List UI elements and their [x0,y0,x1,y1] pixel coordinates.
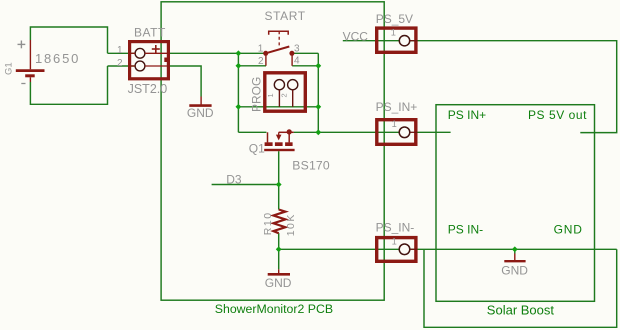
connector BATT [130,42,170,79]
svg-text:PS IN-: PS IN- [448,223,483,237]
transistor Q1 [268,132,294,142]
svg-text:ShowerMonitor2 PCB: ShowerMonitor2 PCB [215,302,333,316]
wire solar gnd stub [514,249,516,253]
ground symbol below BATT [189,97,211,106]
svg-text:GND: GND [554,223,583,237]
svg-text:GND: GND [265,276,292,290]
wire left bus vertical [237,53,239,132]
svg-text:JST2.0: JST2.0 [128,82,168,96]
wire net D3 [212,184,279,186]
svg-text:PS IN+: PS IN+ [448,108,486,122]
frame ShowerMonitor2 PCB [161,2,384,316]
svg-text:Q1: Q1 [249,142,265,156]
wire PS_IN- row right [410,248,617,250]
wire switch pin3 right [292,52,318,54]
wire PROG row [238,106,318,108]
svg-text:3: 3 [294,43,300,54]
svg-text:1: 1 [392,119,397,129]
wire to PS_IN+ [318,131,399,133]
switch START [266,31,292,66]
svg-text:1: 1 [391,28,396,38]
wire Q1 gate down [278,151,280,209]
wire BATT pin1 to switch [170,52,266,54]
svg-text:START: START [265,9,306,23]
header PS_5V [377,28,418,52]
svg-text:2: 2 [279,93,288,97]
wire to Q1 drain [238,131,266,133]
wire PS_5V to solar boost output [410,41,617,133]
wire battery minus loop [30,66,107,104]
wire net VCC [343,40,400,42]
junction solar gnd [512,246,518,252]
svg-text:R10: R10 [262,211,274,235]
transistor Q1 gate bar [264,149,294,151]
battery plus mark [18,41,26,49]
svg-text:PS_IN+: PS_IN+ [376,100,418,114]
wire gnd row to PS_IN- [279,248,400,250]
frame Solar Boost [436,105,595,318]
wire BATT pin1 left [108,52,136,54]
wire R10 to gnd row [278,233,280,249]
wire down to gnd symbol [278,249,280,269]
svg-text:PS 5V out: PS 5V out [528,108,587,122]
svg-text:4: 4 [294,56,300,67]
header PS_IN+ [377,120,418,145]
battery G1 [16,40,45,82]
transistor Q1 channel pads [265,142,293,146]
svg-text:BATT: BATT [134,26,166,40]
transistor Q1 body arrow [276,135,282,141]
wire switch lower row right [292,65,318,67]
wire BATT pin2 left [108,65,136,67]
ground symbol below R10 [268,269,290,274]
header PS_IN- [377,238,418,262]
wire switch lower row left [238,65,266,67]
switch contact dots [263,51,268,56]
svg-text:18650: 18650 [35,51,80,66]
svg-text:PROG: PROG [250,77,264,112]
svg-text:PS_5V: PS_5V [376,12,413,26]
svg-text:1: 1 [117,45,123,56]
svg-text:Solar Boost: Solar Boost [487,303,555,318]
svg-text:2: 2 [117,58,123,69]
svg-text:1: 1 [258,43,264,54]
svg-text:PS_IN-: PS_IN- [376,221,415,235]
junction right bus PROG row [315,104,321,110]
ground symbol solar boost [504,254,525,262]
wire BATT pin2 to ground [170,66,201,97]
junction battery plus at switch row [236,50,242,56]
svg-text:D3: D3 [226,172,242,186]
svg-text:GND: GND [187,106,214,120]
wire Q1 source right [294,131,319,133]
battery minus mark [21,83,25,85]
svg-text:1: 1 [392,237,397,247]
resistor R10 [273,210,285,234]
wire battery plus loop [30,27,107,53]
svg-text:1: 1 [266,93,275,97]
wire ground loop [424,249,617,327]
junction R10 gnd row [276,246,282,252]
wire PS_IN+ into solar boost [417,131,450,133]
svg-text:VCC: VCC [343,29,369,43]
svg-text:10K: 10K [285,213,297,236]
junction left bus PROG row [236,104,242,110]
junction right bus source row [315,129,321,135]
junction node D3 [276,182,282,188]
connector PROG [265,73,306,111]
junction left bus row2 [236,63,242,69]
transistor Q1 bulk dot [287,129,292,134]
svg-text:G1: G1 [3,62,14,75]
svg-text:GND: GND [501,264,528,278]
junction right bus row2 [315,63,321,69]
wire right bus vertical [317,53,319,132]
svg-text:BS170: BS170 [292,159,330,173]
svg-text:2: 2 [258,56,264,67]
